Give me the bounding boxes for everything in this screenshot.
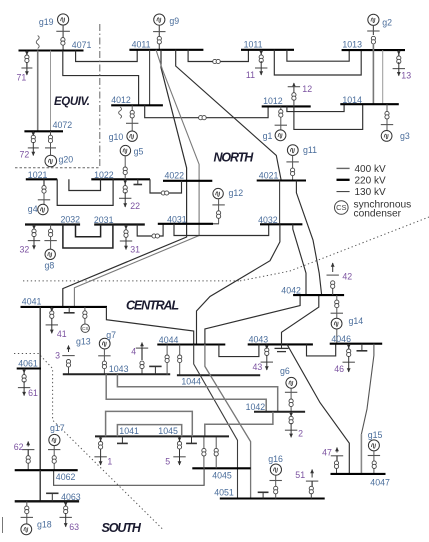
svg-text:g18: g18 (37, 520, 52, 530)
svg-text:g4: g4 (28, 204, 38, 214)
svg-text:g11: g11 (303, 145, 317, 155)
svg-text:g8: g8 (45, 261, 55, 271)
svg-text:43: 43 (253, 362, 263, 372)
svg-text:31: 31 (130, 245, 140, 255)
svg-text:1013: 1013 (342, 40, 362, 50)
svg-text:4062: 4062 (56, 472, 76, 482)
svg-text:4045: 4045 (212, 470, 232, 480)
svg-text:4047: 4047 (370, 478, 390, 488)
svg-text:EQUIV.: EQUIV. (54, 96, 90, 108)
svg-text:g10: g10 (109, 132, 124, 142)
svg-text:4071: 4071 (72, 40, 92, 50)
svg-text:1011: 1011 (244, 40, 263, 50)
svg-text:1045: 1045 (158, 426, 178, 436)
svg-text:g3: g3 (400, 131, 410, 141)
svg-text:g1: g1 (263, 131, 273, 141)
svg-text:4046: 4046 (331, 334, 351, 344)
svg-text:12: 12 (302, 84, 312, 94)
svg-text:g2: g2 (382, 18, 392, 28)
svg-text:2: 2 (298, 429, 303, 439)
svg-text:1: 1 (107, 457, 112, 467)
svg-text:g7: g7 (106, 330, 116, 340)
svg-text:220 kV: 220 kV (355, 175, 386, 186)
svg-text:g15: g15 (368, 430, 383, 440)
svg-text:g17: g17 (50, 423, 65, 433)
svg-text:3: 3 (55, 351, 60, 361)
svg-text:13: 13 (401, 71, 411, 81)
svg-text:4041: 4041 (22, 297, 42, 307)
svg-text:4012: 4012 (111, 95, 131, 105)
svg-text:CS: CS (336, 203, 346, 212)
svg-text:CS: CS (82, 326, 88, 331)
svg-text:1043: 1043 (109, 364, 129, 374)
svg-text:4011: 4011 (132, 40, 151, 50)
svg-text:400 kV: 400 kV (355, 164, 386, 175)
svg-text:4072: 4072 (53, 120, 73, 130)
svg-text:32: 32 (20, 245, 30, 255)
svg-text:g6: g6 (280, 366, 290, 376)
svg-text:4022: 4022 (165, 170, 185, 180)
svg-text:g13: g13 (76, 337, 91, 347)
svg-text:1042: 1042 (246, 402, 266, 412)
svg-text:4: 4 (131, 347, 136, 357)
svg-text:1044: 1044 (181, 377, 201, 387)
svg-text:4043: 4043 (249, 334, 269, 344)
svg-text:41: 41 (57, 329, 67, 339)
svg-text:1041: 1041 (119, 426, 139, 436)
svg-text:4051: 4051 (214, 488, 234, 498)
svg-text:NORTH: NORTH (214, 151, 255, 165)
svg-text:g20: g20 (59, 155, 74, 165)
svg-text:g5: g5 (134, 147, 144, 157)
svg-text:4021: 4021 (259, 170, 279, 180)
svg-text:62: 62 (14, 442, 24, 452)
svg-text:46: 46 (334, 364, 344, 374)
svg-text:5: 5 (165, 457, 170, 467)
svg-text:4042: 4042 (281, 286, 301, 296)
svg-text:g14: g14 (349, 316, 364, 326)
svg-text:condenser: condenser (354, 209, 402, 220)
svg-text:72: 72 (20, 150, 30, 160)
svg-text:22: 22 (130, 201, 140, 211)
svg-text:71: 71 (17, 73, 27, 83)
svg-text:63: 63 (69, 522, 79, 532)
svg-text:130 kV: 130 kV (355, 187, 386, 198)
svg-text:51: 51 (295, 470, 305, 480)
svg-text:g9: g9 (169, 16, 179, 26)
svg-text:SOUTH: SOUTH (102, 521, 142, 535)
svg-text:11: 11 (246, 70, 255, 80)
svg-text:1012: 1012 (263, 96, 283, 106)
svg-text:CENTRAL: CENTRAL (126, 299, 178, 313)
svg-text:42: 42 (342, 272, 352, 282)
svg-text:g19: g19 (39, 17, 54, 27)
svg-text:61: 61 (28, 388, 38, 398)
svg-text:2031: 2031 (94, 215, 114, 225)
svg-text:2032: 2032 (61, 214, 81, 224)
svg-text:g12: g12 (229, 188, 244, 198)
svg-text:47: 47 (322, 448, 332, 458)
svg-text:4061: 4061 (18, 359, 38, 369)
svg-text:g16: g16 (268, 454, 283, 464)
